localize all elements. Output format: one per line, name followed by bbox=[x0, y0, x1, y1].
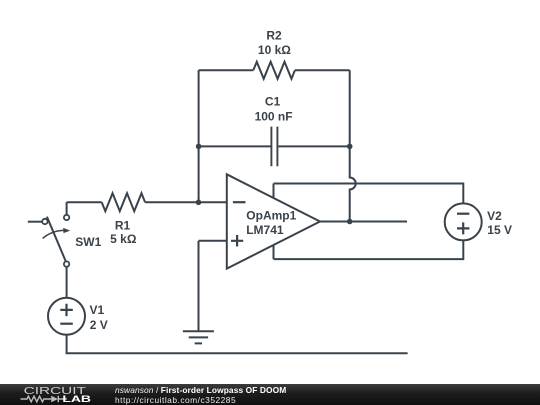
svg-text:SW1: SW1 bbox=[75, 235, 101, 249]
junction node: C1 left bbox=[196, 144, 202, 150]
junction node: output bbox=[347, 219, 353, 225]
svg-text:LM741: LM741 bbox=[246, 223, 284, 237]
junction node: inverting input bbox=[196, 200, 202, 206]
resistor R1 bbox=[102, 193, 145, 211]
junction node: C1 right bbox=[347, 144, 353, 150]
svg-text:2 V: 2 V bbox=[90, 318, 108, 332]
wire: R1 to inverting input bbox=[145, 201, 227, 203]
wire: switch bottom to V1 bbox=[66, 267, 68, 298]
wire: V+ power stub bbox=[273, 184, 275, 198]
svg-text:LAB: LAB bbox=[62, 394, 91, 404]
wire: left vertical node A (R2/C1 left to inverting input) bbox=[198, 70, 200, 202]
svg-text:V2: V2 bbox=[487, 209, 502, 223]
wire: V+ rail to V2 bbox=[274, 184, 464, 204]
svg-text:10 kΩ: 10 kΩ bbox=[258, 43, 291, 57]
wire: switch left throw stub bbox=[28, 221, 42, 223]
wire: right vertical feedback with hop over V+ rail bbox=[350, 70, 356, 221]
switch SW1 left terminal bbox=[42, 219, 47, 224]
resistor R2 bbox=[253, 62, 295, 79]
wire: C1 left segment bbox=[199, 145, 271, 147]
svg-text:V1: V1 bbox=[90, 303, 105, 317]
svg-text:R1: R1 bbox=[115, 218, 131, 232]
wire: V- power stub bbox=[273, 245, 275, 259]
voltage source V2 bbox=[445, 203, 482, 240]
wire: main input horizontal (switch to R1) bbox=[67, 201, 102, 203]
wire: R2 top branch left segment bbox=[199, 69, 254, 71]
wire: C1 right segment bbox=[278, 145, 349, 147]
wire: non-inverting input bbox=[199, 240, 227, 242]
svg-text:15 V: 15 V bbox=[487, 223, 512, 237]
wire: R2 top branch right segment bbox=[295, 69, 350, 71]
op-amp U1 triangle bbox=[227, 174, 320, 268]
footer url line bbox=[115, 395, 236, 405]
footer bar bbox=[0, 384, 540, 405]
op-amp minus input symbol bbox=[233, 201, 246, 203]
wire: V1 bottom to ground rail bbox=[67, 335, 408, 354]
svg-text:5 kΩ: 5 kΩ bbox=[110, 232, 137, 246]
wire: op-amp output stub bbox=[320, 221, 407, 223]
switch SW1 lever bbox=[47, 217, 66, 262]
switch SW1 top terminal bbox=[64, 215, 69, 220]
wire: non-inverting input down to ground bbox=[198, 241, 200, 331]
svg-text:OpAmp1: OpAmp1 bbox=[246, 209, 296, 223]
footer author/title line bbox=[115, 385, 286, 395]
wire: V- rail to V2 bbox=[274, 240, 464, 259]
switch SW1 actuation arc bbox=[43, 230, 64, 238]
svg-text:R2: R2 bbox=[266, 28, 282, 42]
voltage source V1 bbox=[48, 298, 85, 335]
op-amp plus input symbol bbox=[231, 235, 243, 247]
capacitor C1 bbox=[271, 127, 277, 167]
ground bbox=[183, 331, 214, 343]
switch SW1 arrow head bbox=[63, 228, 70, 233]
CircuitLab logo bbox=[0, 384, 110, 405]
wire: switch top stub bbox=[66, 202, 68, 215]
svg-text:100 nF: 100 nF bbox=[255, 109, 293, 123]
svg-text:C1: C1 bbox=[265, 95, 281, 109]
switch SW1 bottom terminal bbox=[64, 261, 69, 266]
